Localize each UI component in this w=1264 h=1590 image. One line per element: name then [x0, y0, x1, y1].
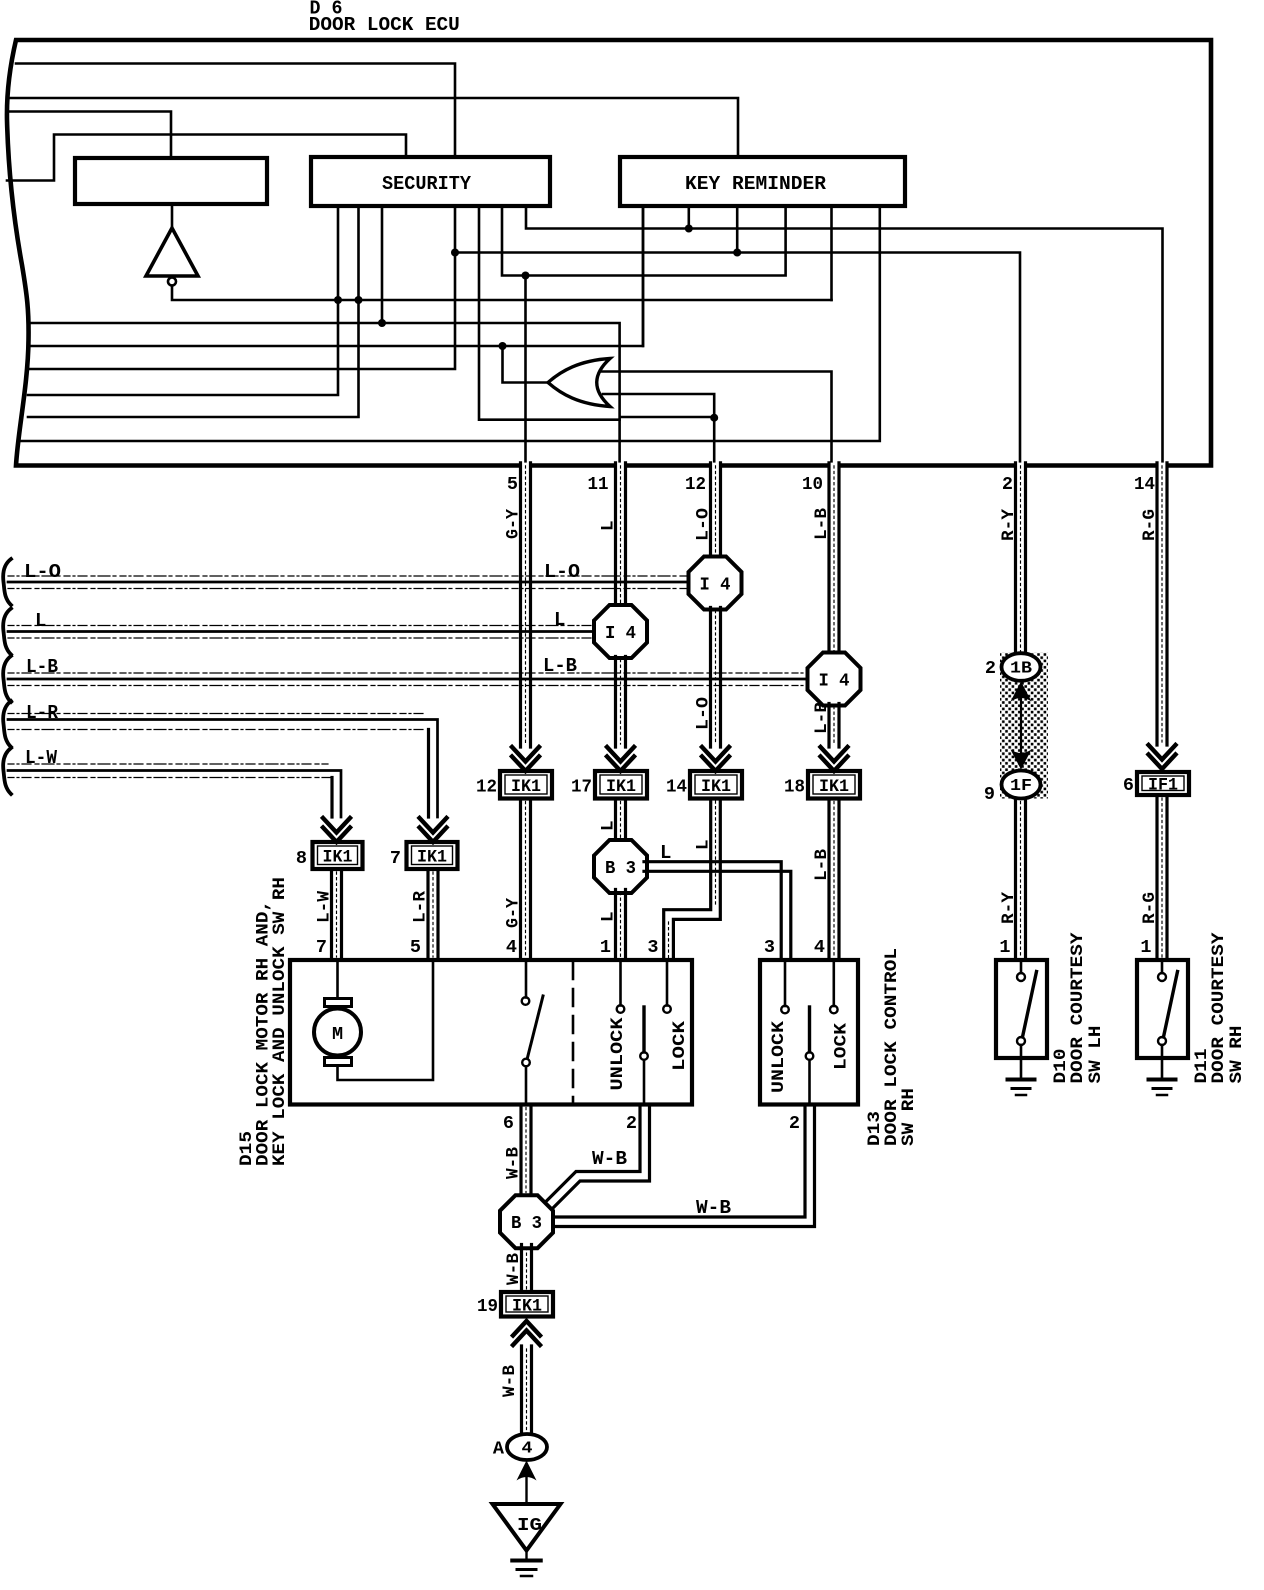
connector 14 IK1: [690, 771, 742, 799]
svg-text:L-O: L-O: [24, 561, 61, 583]
wire W-B to junction 4: [522, 1346, 532, 1434]
wire OR output stem: [503, 346, 549, 383]
pin 2 label D15: [626, 1113, 637, 1134]
pin 7 label D15: [316, 937, 327, 958]
pin notch: [1015, 463, 1024, 469]
pin 6 label D15: [503, 1113, 514, 1134]
connector oval A 4: [507, 1434, 547, 1460]
wire L mid: [616, 657, 626, 748]
junction dot: [710, 414, 718, 422]
bus label L: [35, 610, 46, 632]
svg-text:M: M: [332, 1024, 343, 1045]
label L: [599, 520, 619, 531]
connector 6 IF1: [1137, 772, 1189, 796]
wire B3-1 right to D13 pin3: [644, 862, 791, 960]
label L-B lower: [812, 849, 832, 881]
lock contact lead D15: [666, 960, 669, 1006]
svg-text:12: 12: [476, 777, 497, 798]
wire SECURITY pin c: [381, 206, 384, 323]
label 19: [477, 1296, 498, 1317]
label LOCK D13: [832, 1022, 852, 1070]
svg-text:W-B: W-B: [504, 1147, 524, 1179]
svg-text:I 4: I 4: [605, 623, 636, 644]
svg-text:UNLOCK: UNLOCK: [608, 1017, 628, 1091]
wire SECURITY pin g to pin14 line: [526, 206, 1163, 464]
wire IG stem: [525, 1476, 527, 1504]
junction I 4 octagon (pin12): [689, 557, 742, 610]
label R-Y: [999, 509, 1019, 541]
svg-text:W-B: W-B: [696, 1197, 731, 1219]
wire D13 pin2 to B3: [553, 1105, 815, 1227]
label UNLOCK D13: [769, 1020, 789, 1093]
wire KEY REMINDER pin i: [736, 206, 739, 253]
wire R-Y upper: [1016, 463, 1026, 654]
svg-text:1: 1: [1140, 937, 1151, 958]
svg-text:2: 2: [789, 1113, 800, 1134]
brace L-O: [3, 559, 11, 605]
svg-text:9: 9: [984, 784, 995, 805]
svg-text:4: 4: [522, 1439, 533, 1458]
svg-text:3: 3: [764, 937, 775, 958]
label 17: [571, 777, 592, 798]
label L below B3: [599, 911, 619, 922]
arrow into 17 IK1: [607, 747, 634, 771]
D10 blade: [1023, 972, 1037, 1038]
svg-text:L: L: [554, 609, 565, 631]
key switch blade: [528, 996, 544, 1058]
wire L-W lower: [332, 869, 342, 960]
wire to ECU pin2: [455, 253, 1020, 464]
ground D11: [1149, 1080, 1176, 1096]
svg-text:IK1: IK1: [606, 777, 636, 797]
svg-text:12: 12: [685, 474, 706, 495]
component D10 box: [996, 960, 1047, 1058]
arrow into 6 IF1: [1149, 745, 1176, 769]
wire ECU bottom long net: [18, 206, 880, 441]
svg-text:L-W: L-W: [315, 891, 335, 923]
unlock contact D13: [781, 1006, 789, 1014]
bus label L-B: [26, 656, 58, 678]
pin 5 label: [507, 474, 518, 495]
key switch lead bottom: [525, 1066, 528, 1104]
label 8: [296, 848, 307, 869]
label R-G lower: [1140, 892, 1160, 924]
svg-text:DOOR LOCK ECU: DOOR LOCK ECU: [309, 14, 460, 36]
svg-text:W-B: W-B: [504, 1253, 524, 1285]
component D13 box: [760, 960, 858, 1105]
arrow up below 19 IK1: [513, 1321, 540, 1345]
svg-text:1F: 1F: [1010, 776, 1032, 795]
svg-text:IK1: IK1: [701, 777, 731, 797]
wire L below B3: [616, 890, 626, 961]
label L-R lower: [411, 891, 431, 923]
svg-text:IK1: IK1: [417, 848, 447, 868]
wire R-Y lower: [1016, 799, 1026, 961]
label G-Y lower: [504, 898, 524, 928]
svg-text:3: 3: [647, 937, 658, 958]
svg-text:5: 5: [410, 937, 421, 958]
motor M lead top: [336, 960, 339, 999]
label W-B lower: [500, 1365, 520, 1397]
wire line1 to SECURITY top: [16, 64, 455, 158]
connector oval 1F: [1002, 771, 1041, 799]
label 14: [666, 777, 687, 798]
bus wire L-O: [8, 576, 690, 589]
arrow into 14 IK1: [702, 747, 729, 771]
junction B 3 octagon (pin11): [594, 840, 647, 893]
label W-B long: [696, 1197, 731, 1219]
svg-text:L-R: L-R: [26, 702, 59, 724]
D10 contact lead: [1020, 960, 1023, 973]
connector 19 IK1: [501, 1292, 553, 1317]
wire KEY REMINDER pin to net B: [642, 206, 645, 346]
label L below 14IK1: [694, 839, 714, 850]
bus label L-W: [25, 747, 58, 769]
svg-text:L-W: L-W: [25, 747, 58, 769]
arrow down above 1F: [1011, 750, 1032, 770]
svg-text:LOCK: LOCK: [832, 1022, 852, 1070]
brace L: [3, 609, 11, 655]
junction dot: [685, 225, 693, 233]
label D 6: [310, 0, 343, 20]
wire G-Y lower: [521, 799, 531, 961]
label L-O mid: [694, 697, 714, 730]
motor M: [314, 999, 361, 1066]
label 9 at 1F: [984, 784, 995, 805]
label 6: [1123, 775, 1134, 796]
component D11 box: [1137, 960, 1188, 1058]
arrow into 7 IK1: [420, 818, 447, 842]
caption D15: [237, 877, 290, 1166]
wire G-Y upper: [521, 463, 531, 747]
pin notch: [616, 463, 625, 469]
D15 dashed divider: [572, 962, 575, 1104]
pole blade D15: [642, 1007, 645, 1052]
pole contact D13: [806, 1052, 814, 1060]
D11 contact bottom: [1158, 1037, 1166, 1045]
pin notch: [711, 463, 720, 469]
svg-text:2: 2: [626, 1113, 637, 1134]
pole lead D13: [808, 1060, 811, 1105]
wire SECURITY pin e: [479, 206, 620, 420]
IG ground stem: [525, 1550, 527, 1560]
wire L-O mid: [711, 608, 721, 748]
caption D11: [1192, 932, 1247, 1084]
connector 7 IK1: [407, 842, 458, 869]
svg-text:SW RH: SW RH: [1227, 1026, 1247, 1084]
bus label L-B right: [543, 655, 577, 677]
bus label L-O: [24, 561, 61, 583]
junction dot: [355, 296, 363, 304]
unlock contact lead D15: [619, 960, 622, 1006]
svg-text:L-B: L-B: [812, 849, 832, 881]
svg-text:17: 17: [571, 777, 592, 798]
pin 11 label: [588, 474, 609, 495]
svg-text:L-R: L-R: [411, 891, 431, 923]
power symbol IG: [493, 1504, 561, 1551]
bus wire L-B: [8, 673, 808, 686]
svg-text:6: 6: [503, 1113, 514, 1134]
svg-text:4: 4: [814, 937, 825, 958]
wire L-B upper: [829, 463, 839, 656]
wire SECURITY pin d: [28, 206, 455, 369]
arrow into 18 IK1: [821, 747, 848, 771]
junction dot: [451, 249, 459, 257]
connector oval 1B: [1002, 653, 1041, 681]
svg-text:A: A: [493, 1439, 505, 1460]
pin notch: [1158, 463, 1167, 469]
D10 contact top: [1017, 973, 1025, 981]
D11 blade: [1164, 972, 1178, 1038]
svg-text:5: 5: [507, 474, 518, 495]
key switch lead: [525, 960, 528, 998]
wire line4 to SECURITY top: [7, 135, 406, 181]
wire OR input 1: [601, 372, 832, 464]
pin 14 label: [1134, 474, 1155, 495]
unlock contact lead D13: [784, 960, 787, 1006]
unlock contact D15: [617, 1005, 625, 1013]
junction I 4 octagon (pin10): [808, 653, 861, 706]
ECU D6 box outline: [7, 40, 1211, 466]
junction dot: [378, 319, 386, 327]
pin 2 label: [1002, 474, 1013, 495]
svg-text:UNLOCK: UNLOCK: [769, 1020, 789, 1093]
svg-text:IG: IG: [517, 1515, 542, 1536]
D10 contact bottom: [1017, 1037, 1025, 1045]
svg-text:W-B: W-B: [500, 1365, 520, 1397]
svg-text:2: 2: [1002, 474, 1013, 495]
OR gate U2: [548, 359, 610, 407]
pin 3 label D15: [647, 937, 658, 958]
halftone zone 1B-1F: [1000, 653, 1048, 799]
bus wire L-R: [8, 714, 438, 818]
bus label L-O right: [544, 561, 580, 583]
key switch contact bottom: [522, 1059, 530, 1067]
label L on B3 wire: [660, 842, 671, 864]
label L-O: [694, 508, 714, 541]
wire net C: [620, 416, 714, 419]
svg-text:G-Y: G-Y: [504, 898, 524, 928]
KEY REMINDER block: [620, 157, 905, 206]
label L-W lower: [315, 891, 335, 923]
svg-text:L-O: L-O: [694, 697, 714, 730]
svg-text:B 3: B 3: [605, 858, 636, 879]
pin 4 label D15: [506, 937, 517, 958]
junction dot: [733, 249, 741, 257]
wire KEY REMINDER pin j (ECU pin10 top): [830, 206, 833, 300]
svg-text:L: L: [660, 842, 671, 864]
D11 lead to ground: [1161, 1045, 1164, 1077]
ground D10: [1008, 1080, 1035, 1096]
svg-text:L-B: L-B: [543, 655, 577, 677]
lock contact lead D13: [832, 960, 835, 1006]
pin 5 label D15: [410, 937, 421, 958]
svg-text:6: 6: [1123, 775, 1134, 796]
svg-text:7: 7: [316, 937, 327, 958]
svg-text:1: 1: [999, 937, 1010, 958]
brace L-R: [3, 701, 11, 747]
svg-text:10: 10: [802, 474, 823, 495]
connector 12 IK1: [500, 771, 552, 799]
svg-text:8: 8: [296, 848, 307, 869]
label W-B below B3: [504, 1253, 524, 1285]
label W-B near D15 pin2: [592, 1148, 627, 1170]
wire L-B lower: [829, 799, 839, 961]
bus wire L: [8, 626, 595, 639]
svg-text:I 4: I 4: [819, 671, 850, 692]
wire W-B pin6: [521, 1105, 531, 1196]
wire L-R lower: [428, 869, 438, 960]
caption D10: [1051, 932, 1106, 1084]
svg-text:L-O: L-O: [544, 561, 580, 583]
wire R-G lower: [1157, 795, 1167, 960]
wire net A: [28, 323, 620, 464]
wire SECURITY pin f: [502, 206, 786, 276]
pin 1 label D11: [1140, 937, 1151, 958]
svg-text:L: L: [35, 610, 46, 632]
D10 lead to ground: [1020, 1045, 1023, 1077]
label L above B3: [599, 820, 619, 831]
wire L below 17IK1: [616, 799, 626, 844]
pin 4 label D13: [814, 937, 825, 958]
svg-text:11: 11: [588, 474, 609, 495]
wire line2 to KEY REMINDER top: [8, 98, 738, 157]
wire D15 pin2 to B3: [547, 1105, 650, 1209]
pin 3 label D13: [764, 937, 775, 958]
svg-text:R-G: R-G: [1140, 892, 1160, 924]
pole blade D13: [808, 1007, 811, 1052]
svg-text:19: 19: [477, 1296, 498, 1317]
caption D13: [865, 948, 919, 1146]
label 18: [784, 777, 805, 798]
inverter bubble: [168, 278, 176, 286]
pin notch: [521, 463, 530, 469]
svg-text:I 4: I 4: [700, 575, 731, 596]
svg-text:IK1: IK1: [511, 777, 541, 797]
junction dot: [522, 272, 530, 280]
svg-text:L-B: L-B: [26, 656, 58, 678]
svg-text:1: 1: [600, 937, 611, 958]
SECURITY block: [311, 157, 550, 206]
label 12: [476, 777, 497, 798]
svg-text:14: 14: [666, 777, 687, 798]
wire L-B mid2: [829, 704, 839, 748]
svg-text:W-B: W-B: [592, 1148, 627, 1170]
label 7: [390, 848, 401, 869]
pin 10 label: [802, 474, 823, 495]
wire SECURITY pin b: [28, 206, 359, 417]
motor M lead bottom: [338, 960, 434, 1080]
label L-B mid: [812, 702, 832, 734]
svg-text:IK1: IK1: [323, 848, 353, 868]
pole lead D15: [643, 1060, 646, 1105]
svg-text:DOOR COURTESY: DOOR COURTESY: [1068, 932, 1088, 1084]
pin 2 label D13: [789, 1113, 800, 1134]
D11 contact top: [1158, 973, 1166, 981]
svg-text:SW LH: SW LH: [1086, 1026, 1106, 1084]
wire W-B below B3: [522, 1245, 532, 1293]
svg-text:SW RH: SW RH: [899, 1088, 919, 1146]
key switch contact top: [522, 997, 530, 1005]
svg-text:R-Y: R-Y: [999, 892, 1019, 924]
pin 1 label D10: [999, 937, 1010, 958]
label W-B pin6: [504, 1147, 524, 1179]
label UNLOCK D15: [608, 1017, 628, 1091]
connector 17 IK1: [595, 771, 647, 799]
arrow up below oval 4: [517, 1461, 537, 1481]
wire L jog to D15 pin3: [664, 799, 721, 961]
wire net B (OR output): [28, 206, 643, 346]
lock contact D13: [830, 1006, 838, 1014]
svg-text:LOCK: LOCK: [670, 1020, 690, 1071]
svg-text:IF1: IF1: [1148, 776, 1178, 796]
lock contact D15: [663, 1005, 671, 1013]
svg-text:L: L: [599, 820, 619, 831]
svg-text:L: L: [599, 911, 619, 922]
buffer stem from unnamed box: [171, 204, 174, 228]
component D15 box: [290, 960, 692, 1105]
brace L-W: [3, 748, 11, 794]
bus label L-R: [26, 702, 59, 724]
label R-G: [1140, 509, 1160, 541]
svg-text:IK1: IK1: [819, 777, 849, 797]
svg-text:14: 14: [1134, 474, 1155, 495]
pin notch: [829, 463, 838, 469]
label A: [493, 1439, 505, 1460]
svg-text:4: 4: [506, 937, 517, 958]
wire inverter output: [172, 286, 832, 301]
svg-text:1B: 1B: [1010, 659, 1032, 678]
label L-B: [812, 508, 832, 540]
junction dot: [334, 296, 342, 304]
wire L-O upper: [711, 463, 721, 559]
svg-text:18: 18: [784, 777, 805, 798]
wire L upper: [616, 463, 626, 607]
pin 12 label: [685, 474, 706, 495]
arrow up below 1B: [1011, 682, 1032, 758]
junction I 4 octagon (pin11): [594, 605, 647, 658]
pole contact D15: [640, 1052, 648, 1060]
label LOCK D15: [670, 1020, 690, 1071]
connector 18 IK1: [808, 771, 860, 799]
junction B 3 octagon (W-B): [500, 1195, 553, 1248]
junction dot: [499, 342, 507, 350]
wire OR input 2: [603, 394, 714, 464]
svg-text:IK1: IK1: [512, 1296, 542, 1316]
bus label L right: [554, 609, 565, 631]
wire KEY REMINDER pin h: [687, 206, 690, 229]
svg-text:DOOR COURTESY: DOOR COURTESY: [1209, 932, 1229, 1084]
brace L-B: [3, 656, 11, 702]
arrow into 8 IK1: [323, 818, 350, 842]
arrow into 12 IK1: [512, 747, 539, 771]
label DOOR LOCK ECU: [309, 14, 460, 36]
svg-text:SECURITY: SECURITY: [382, 173, 472, 195]
svg-text:7: 7: [390, 848, 401, 869]
wire SECURITY pin a: [28, 206, 338, 395]
svg-text:KEY LOCK AND UNLOCK SW RH: KEY LOCK AND UNLOCK SW RH: [270, 877, 290, 1166]
svg-text:L: L: [694, 839, 714, 850]
pin 1 label D15: [600, 937, 611, 958]
inverter triangle U1: [146, 228, 198, 276]
svg-text:2: 2: [985, 658, 996, 679]
wire ECU pin5 inside: [524, 276, 527, 464]
svg-text:B 3: B 3: [511, 1213, 542, 1234]
wire line3 to unnamed box top: [7, 112, 171, 159]
label G-Y: [504, 509, 524, 539]
internal block box (unnamed): [75, 158, 267, 204]
ground IG: [512, 1561, 541, 1577]
